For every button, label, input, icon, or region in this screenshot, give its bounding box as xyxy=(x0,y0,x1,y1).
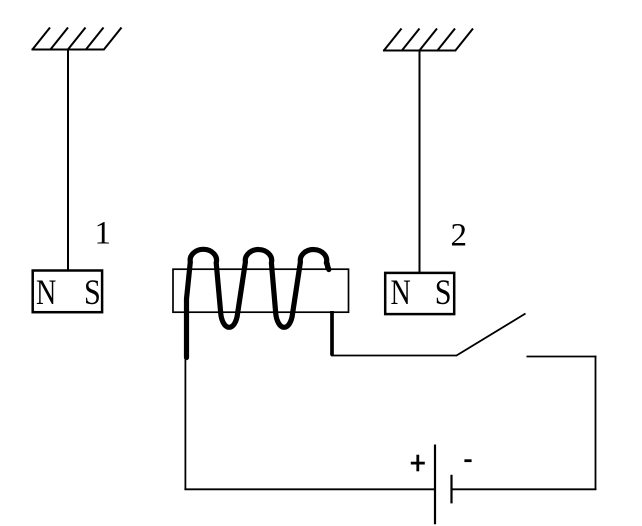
wire right vertical xyxy=(595,356,597,490)
solenoid core bar xyxy=(173,269,349,312)
wire left vertical (coil to bottom) xyxy=(184,356,186,490)
coil winding xyxy=(187,249,329,357)
coil right lead xyxy=(330,311,334,356)
svg-text:S: S xyxy=(435,272,452,312)
svg-text:2: 2 xyxy=(451,218,468,254)
battery plus sign xyxy=(411,455,425,472)
svg-text:1: 1 xyxy=(95,216,112,252)
magnet 1 body xyxy=(33,271,102,313)
coil hidden strand (behind core) xyxy=(327,263,331,291)
wire bottom left (battery to left) xyxy=(184,488,436,490)
wire coil to switch xyxy=(331,355,457,357)
svg-text:S: S xyxy=(84,272,101,312)
wire bottom right (battery to right) xyxy=(452,488,597,490)
ceiling support right (hatched) xyxy=(383,29,473,52)
svg-text:N: N xyxy=(391,271,411,311)
switch right contact wire xyxy=(527,356,597,358)
magnet 2 body xyxy=(385,273,454,314)
battery minus sign xyxy=(464,459,471,462)
string for magnet 1 xyxy=(67,50,69,270)
battery short plate (negative) xyxy=(450,475,452,504)
string for magnet 2 xyxy=(419,51,421,272)
switch blade (open) xyxy=(457,314,526,356)
ceiling support left (hatched) xyxy=(32,28,122,51)
battery long plate (positive) xyxy=(434,445,436,525)
svg-text:N: N xyxy=(36,271,56,311)
